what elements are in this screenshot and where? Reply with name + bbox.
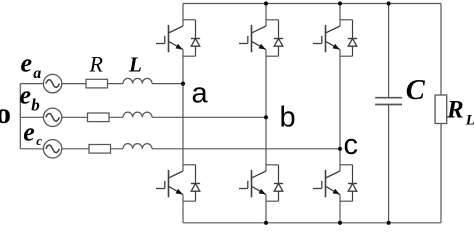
wire: neutral bus o (left vertical) [19,84,21,149]
upper IGBT leg c: diode top connector wire [340,19,353,21]
upper IGBT leg b: diode anode lead [278,46,280,56]
upper IGBT leg c: body bar [325,25,327,52]
upper IGBT leg a: diode top connector wire [183,19,196,21]
wire: load top lead (right vertical) [440,4,442,96]
upper IGBT leg a: emitter diagonal [169,41,184,49]
wire: phase a line from neutral to inductor [20,83,123,85]
lower IGBT leg c: gate plate [321,181,323,189]
resistor R phase c [89,145,111,154]
AC source e_c [43,140,61,158]
lower IGBT leg c: diode cathode bar [348,183,357,185]
lower IGBT leg a: emitter diagonal [169,186,184,194]
lower IGBT leg c: collector diagonal [326,171,341,178]
lower IGBT leg b: diode top connector wire [266,164,279,166]
wire: phase b line from inductor to node b [152,116,266,118]
upper IGBT leg b: body bar [251,25,253,52]
junction dot node b [264,115,268,119]
upper IGBT leg b: collector lead wire [265,4,267,27]
junction dot top bus / leg b [264,1,268,5]
upper IGBT leg b: gate lead [239,43,248,45]
upper IGBT leg c: diode cathode bar [348,38,357,40]
junction dot top bus / leg c [338,1,342,5]
upper IGBT leg b: diode bottom connector wire [266,55,279,57]
AC source e_a [43,74,61,92]
transistor upper IGBT leg b (with anti-parallel diode) [239,4,283,118]
upper IGBT leg c: diode anode lead [352,46,354,56]
upper IGBT leg a: gate lead [156,43,165,45]
upper IGBT leg b: emitter arrowhead [259,44,266,50]
transistor upper IGBT leg c (with anti-parallel diode) [313,4,357,149]
lower IGBT leg a: gate lead [156,188,165,190]
svg-text:b: b [280,102,296,134]
upper IGBT leg b: diode top connector wire [266,19,279,21]
lower IGBT leg a: diode cathode bar [191,183,200,185]
lower IGBT leg b: gate plate [247,181,249,189]
junction dot node c [338,147,342,151]
upper IGBT leg c: gate lead [313,43,322,45]
svg-text:a: a [33,65,41,82]
lower IGBT leg a: diode triangle [191,184,200,192]
upper IGBT leg b: gate plate [247,36,249,44]
resistor R phase b [88,113,110,122]
lower IGBT leg a: emitter lead wire [182,195,184,223]
svg-text:e: e [20,80,32,109]
lower IGBT leg b: emitter lead wire [265,195,267,223]
lower IGBT leg c: diode bottom connector wire [340,200,353,202]
lower IGBT leg c: diode top connector wire [340,164,353,166]
wire: positive DC bus (top rail) [183,3,441,5]
svg-text:a: a [192,78,209,110]
lower IGBT leg b: emitter diagonal [252,186,267,194]
wire: load bottom lead [440,124,442,223]
upper IGBT leg b: collector diagonal [252,26,267,33]
lower IGBT leg b: diode anode lead [278,191,280,201]
upper IGBT leg b: diode triangle [274,39,283,47]
upper IGBT leg a: body bar [168,25,170,52]
upper IGBT leg a: gate plate [164,36,166,44]
lower IGBT leg a: gate plate [164,181,166,189]
upper IGBT leg c: diode bottom connector wire [340,55,353,57]
transistor lower IGBT leg c (with anti-parallel diode) [313,149,357,223]
svg-text:R: R [89,51,104,76]
lower IGBT leg b: collector lead wire [265,117,267,171]
svg-text:e: e [21,48,33,77]
junction dot bottom bus / leg c [338,221,342,225]
upper IGBT leg a: collector diagonal [169,26,184,33]
inductor L phase a [123,78,152,83]
upper IGBT leg b: diode cathode bar [274,38,283,40]
resistor R phase a [86,79,108,88]
svg-text:c: c [344,129,359,161]
lower IGBT leg b: diode bottom connector wire [266,200,279,202]
lower IGBT leg a: diode cathode lead [195,165,197,184]
lower IGBT leg b: collector diagonal [252,171,267,178]
AC source e_b [43,108,61,126]
wire: negative DC bus (bottom rail) [183,222,441,224]
transistor lower IGBT leg a (with anti-parallel diode) [156,84,200,223]
transistor upper IGBT leg a (with anti-parallel diode) [156,4,200,84]
lower IGBT leg c: body bar [325,170,327,197]
upper IGBT leg a: diode triangle [191,39,200,47]
inductor L phase c [123,144,152,149]
resistor R_L (load) [435,95,447,124]
svg-text:L: L [128,52,142,76]
lower IGBT leg c: gate lead [313,188,322,190]
upper IGBT leg a: diode bottom connector wire [183,55,196,57]
wire: capacitor bottom lead [388,105,390,223]
junction dot bottom bus / leg b [264,221,268,225]
junction dot bottom bus / capacitor [387,221,391,225]
upper IGBT leg c: emitter lead wire [339,50,341,149]
lower IGBT leg a: diode bottom connector wire [183,200,196,202]
lower IGBT leg a: emitter arrowhead [176,189,183,195]
svg-text:L: L [465,113,474,129]
upper IGBT leg c: emitter arrowhead [333,44,340,50]
wire: phase a line from inductor to node a [152,83,183,85]
upper IGBT leg b: diode cathode lead [278,20,280,39]
lower IGBT leg a: collector diagonal [169,171,184,178]
wire: phase c line from neutral to inductor [20,148,123,150]
lower IGBT leg b: diode triangle [274,184,283,192]
upper IGBT leg b: emitter diagonal [252,41,267,49]
svg-text:R: R [446,96,464,123]
upper IGBT leg c: emitter diagonal [326,41,341,49]
upper IGBT leg a: collector lead wire [182,4,184,27]
upper IGBT leg c: collector diagonal [326,26,341,33]
lower IGBT leg c: diode anode lead [352,191,354,201]
lower IGBT leg b: diode cathode bar [274,183,283,185]
lower IGBT leg c: collector lead wire [339,149,341,171]
svg-text:e: e [23,117,35,146]
svg-text:b: b [31,95,40,114]
lower IGBT leg c: emitter arrowhead [333,189,340,195]
upper IGBT leg c: diode cathode lead [352,20,354,39]
lower IGBT leg b: emitter arrowhead [259,189,266,195]
lower IGBT leg c: diode cathode lead [352,165,354,184]
wire: capacitor top lead [388,4,390,98]
junction dot top bus / capacitor [387,1,391,5]
lower IGBT leg b: body bar [251,170,253,197]
upper IGBT leg c: collector lead wire [339,4,341,27]
upper IGBT leg c: diode triangle [348,39,357,47]
upper IGBT leg a: diode cathode lead [195,20,197,39]
lower IGBT leg c: diode triangle [348,184,357,192]
svg-text:C: C [406,75,426,106]
lower IGBT leg b: gate lead [239,188,248,190]
upper IGBT leg a: emitter arrowhead [176,44,183,50]
lower IGBT leg a: body bar [168,170,170,197]
upper IGBT leg c: gate plate [321,36,323,44]
upper IGBT leg a: diode cathode bar [191,38,200,40]
lower IGBT leg a: diode top connector wire [183,164,196,166]
transistor lower IGBT leg b (with anti-parallel diode) [239,117,283,223]
upper IGBT leg a: diode anode lead [195,46,197,56]
lower IGBT leg c: emitter diagonal [326,186,341,194]
lower IGBT leg c: emitter lead wire [339,195,341,223]
inductor L phase b [123,112,152,117]
svg-text:o: o [0,97,11,130]
wire: phase c line from inductor to node c [152,148,340,150]
lower IGBT leg b: diode cathode lead [278,165,280,184]
lower IGBT leg a: collector lead wire [182,84,184,171]
svg-text:c: c [36,133,42,148]
wire: phase b line from neutral to inductor [20,116,123,118]
junction dot node a [181,82,185,86]
upper IGBT leg a: emitter lead wire [182,50,184,84]
upper IGBT leg b: emitter lead wire [265,50,267,118]
capacitor C plates [375,97,402,99]
lower IGBT leg a: diode anode lead [195,191,197,201]
